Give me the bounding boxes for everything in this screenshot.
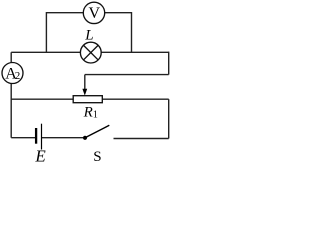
svg-text:R: R — [83, 105, 93, 121]
svg-text:L: L — [84, 28, 93, 44]
svg-text:2: 2 — [15, 70, 21, 82]
svg-text:E: E — [34, 147, 46, 163]
svg-text:1: 1 — [93, 110, 98, 121]
svg-text:S: S — [93, 149, 101, 163]
svg-text:V: V — [89, 5, 101, 22]
